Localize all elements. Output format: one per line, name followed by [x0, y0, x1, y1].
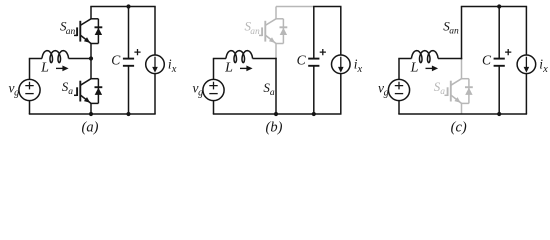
greyed IGBT Sa (c): gate lead [445, 94, 448, 96]
current source is (a): arrow head [152, 67, 158, 73]
wire: current source branch top (b) [340, 7, 342, 56]
IGBT Sa (a): antiparallel diode branch wire [97, 79, 99, 104]
current source is (b): arrow shaft [340, 57, 342, 68]
inductor current arrow (a) [56, 67, 64, 69]
svg-text:L: L [40, 61, 49, 76]
greyed IGBT San (b): gate bar [261, 27, 263, 36]
IGBT San (a): emitter diagonal [80, 35, 91, 43]
greyed wire: IGBT bottom lead (c) [461, 103, 463, 114]
IGBT San (a): antiparallel diode branch wire [97, 19, 99, 44]
wire: vg top lead and corner to inductor [29, 59, 31, 80]
svg-text:an: an [66, 27, 76, 37]
source vg (a): minus sign [25, 93, 33, 95]
wire: bottom rail (c) [398, 113, 527, 115]
wire: inductor to leg mid node [69, 58, 92, 60]
wire: vg bottom lead (c) [398, 101, 400, 114]
source vg (c): circle [388, 79, 409, 100]
inductor L (c): coil [412, 51, 439, 63]
source vg (b): minus sign [209, 93, 217, 95]
IGBT Sa (a): gate bar [76, 87, 78, 96]
greyed IGBT Sa (c): collector diagonal [451, 79, 462, 86]
wire: top rail (a) [90, 6, 155, 8]
wire: top rail (c) [461, 6, 527, 8]
wire: inductor to sa switch corner (b) [253, 58, 277, 60]
greyed IGBT San (b): antiparallel diode branch wire [282, 19, 284, 44]
wire: leg bottom lead [90, 103, 92, 114]
IGBT Sa (a): emitter stub [91, 102, 98, 104]
greyed IGBT Sa (c): collector stub [462, 78, 469, 80]
svg-text:(b): (b) [266, 120, 283, 136]
svg-text:(a): (a) [82, 120, 99, 136]
greyed IGBT San (b): gate lead [259, 34, 262, 36]
IGBT San (a): collector diagonal [80, 19, 91, 26]
node: cap bottom dot (c) [497, 112, 501, 116]
svg-text:a: a [270, 88, 275, 98]
wire: capacitor branch top (c) [498, 7, 500, 59]
greyed IGBT San (b): diode cathode bar [280, 26, 288, 28]
IGBT Sa (a): diode triangle [95, 88, 102, 95]
greyed IGBT Sa (c): antiparallel diode branch wire [468, 79, 470, 104]
svg-text:C: C [297, 52, 307, 67]
greyed IGBT San (b): emitter diagonal [265, 35, 276, 43]
IGBT San (a): channel bar [79, 21, 81, 42]
source vg (b): circle [203, 79, 224, 100]
greyed IGBT Sa (c): diode triangle [465, 88, 472, 95]
svg-text:g: g [198, 87, 203, 98]
IGBT Sa (a): gate lead [74, 94, 77, 96]
capacitor C (b): top plate [308, 58, 319, 60]
wire: current source branch bottom (b) [340, 74, 342, 114]
greyed IGBT Sa (c): channel bar [450, 81, 452, 102]
IGBT San (a): emitter arrowhead [84, 37, 90, 43]
IGBT San (a): diode triangle [95, 28, 102, 35]
wire: top rail (b) black from cap to is [313, 6, 341, 8]
greyed wire: IGBT bottom lead (b) [275, 44, 277, 59]
IGBT Sa (a): channel bar [79, 81, 81, 102]
node: mid node dot (a) [89, 56, 93, 60]
greyed IGBT San (b): channel bar [264, 21, 266, 42]
capacitor C (b): plus polarity mark [320, 49, 326, 55]
wire: current source branch top (c) [525, 7, 527, 56]
source vg (c): plus sign [395, 82, 403, 90]
wire: closed switch sa vertical (b) [275, 58, 277, 114]
source vg (c): minus sign [395, 93, 403, 95]
current source is (c): arrow shaft [525, 57, 527, 68]
inductor current arrow (b) [240, 67, 248, 69]
node: cap bottom dot (b) [312, 112, 316, 116]
current source is (a): circle [146, 55, 165, 74]
svg-text:(c): (c) [451, 120, 467, 136]
greyed IGBT Sa (c): emitter diagonal [451, 95, 462, 103]
wire: capacitor branch bottom (b) [313, 66, 315, 114]
source vg (a): plus sign [25, 82, 33, 90]
greyed wire: top horizontal to cap corner (b) [276, 6, 314, 8]
svg-text:an: an [250, 27, 260, 37]
capacitor C (a): top plate [123, 58, 134, 60]
IGBT San (a): gate bar [76, 27, 78, 36]
svg-text:x: x [542, 64, 548, 75]
wire: current source branch bottom (c) [525, 74, 527, 114]
wire: vg top lead and corner (c) [398, 59, 400, 80]
svg-text:a: a [68, 87, 73, 97]
svg-text:L: L [410, 61, 419, 76]
wire: vg top lead and corner (b) [213, 59, 215, 80]
IGBT Sa (a): emitter arrowhead [84, 97, 90, 103]
capacitor C (c): plus polarity mark [505, 49, 511, 55]
svg-text:C: C [482, 52, 492, 67]
current source is (c): arrow head [524, 67, 530, 73]
greyed IGBT Sa branch (c): top lead [461, 59, 463, 79]
wire: capacitor branch bottom (c) [498, 66, 500, 114]
svg-text:g: g [384, 87, 389, 98]
greyed IGBT Sa (c): emitter arrowhead [454, 97, 460, 103]
IGBT San (a): diode cathode bar [95, 26, 103, 28]
wire: current source branch bottom (a) [154, 74, 156, 114]
inductor L (b): coil [226, 51, 253, 63]
current source is (b): arrow head [338, 67, 344, 73]
wire: capacitor branch top (b) [313, 7, 315, 59]
svg-text:C: C [111, 52, 121, 67]
wire: bottom rail (b) [213, 113, 342, 115]
node: cap bottom dot (a) [126, 112, 130, 116]
IGBT Sa (a): collector stub [91, 78, 98, 80]
wire: inductor to closed switch corner (c) [438, 58, 462, 60]
node: cap top dot (c) [497, 4, 501, 8]
wire: current source branch top (a) [154, 7, 156, 56]
greyed IGBT San branch (b): top lead [275, 7, 277, 19]
current source is (a): arrow shaft [154, 57, 156, 68]
wire: vg bottom lead (b) [213, 101, 215, 114]
node: leg bottom dot (a) [89, 112, 93, 116]
IGBT Sa (a): collector diagonal [80, 79, 91, 86]
capacitor C (c): top plate [494, 58, 505, 60]
wire: closed switch san vertical (c) [461, 7, 463, 60]
svg-text:x: x [171, 64, 177, 75]
greyed IGBT San (b): collector diagonal [265, 19, 276, 26]
greyed IGBT San (b): collector stub [276, 18, 283, 20]
capacitor C (b): bottom plate [308, 65, 319, 67]
IGBT Sa (a): emitter diagonal [80, 95, 91, 103]
greyed IGBT San (b): emitter stub [276, 43, 283, 45]
wire: leg top lead [90, 7, 92, 19]
greyed IGBT San (b): diode triangle [280, 28, 287, 35]
greyed IGBT San (b): emitter arrowhead [269, 37, 275, 43]
capacitor C (a): bottom plate [123, 65, 134, 67]
source vg (a): circle [19, 79, 40, 100]
wire: capacitor branch bottom (a) [128, 66, 130, 114]
svg-text:an: an [449, 26, 459, 36]
wire: leg mid lead [90, 44, 92, 79]
current source is (c): circle [517, 55, 536, 74]
inductor current arrow (c) [426, 67, 434, 69]
node: sa bottom dot (b) [274, 112, 278, 116]
IGBT Sa (a): diode cathode bar [95, 86, 103, 88]
svg-text:x: x [357, 64, 363, 75]
capacitor C (c): bottom plate [494, 65, 505, 67]
source vg (b): plus sign [209, 82, 217, 90]
svg-text:g: g [14, 87, 19, 98]
greyed IGBT Sa (c): gate bar [447, 87, 449, 96]
svg-text:a: a [440, 87, 445, 97]
wire: capacitor branch top (a) [128, 7, 130, 59]
IGBT San (a): emitter stub [91, 43, 98, 45]
greyed IGBT Sa (c): diode cathode bar [465, 86, 473, 88]
IGBT San (a): collector stub [91, 18, 98, 20]
wire: bottom rail (a) [29, 113, 156, 115]
capacitor C (a): plus polarity mark [134, 49, 140, 55]
svg-text:L: L [224, 61, 233, 76]
IGBT San (a): gate lead [74, 34, 77, 36]
inductor L (a): coil [42, 51, 69, 63]
current source is (b): circle [332, 55, 351, 74]
greyed IGBT Sa (c): emitter stub [462, 102, 469, 104]
wire: vg bottom lead [29, 101, 31, 114]
node: cap top dot (a) [126, 4, 130, 8]
